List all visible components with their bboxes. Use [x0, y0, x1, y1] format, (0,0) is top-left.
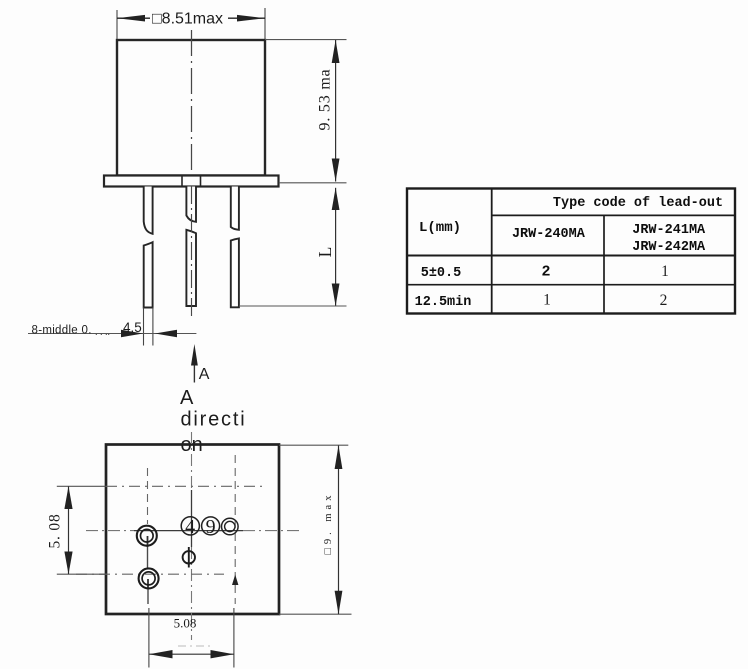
table row 12.5min [415, 292, 668, 311]
pin width extension lines [144, 308, 153, 346]
svg-text:L(mm): L(mm) [419, 220, 461, 236]
svg-text:5.08: 5.08 [174, 616, 197, 631]
svg-text:5±0.5: 5±0.5 [421, 266, 462, 281]
left pin row dashed line [147, 468, 150, 604]
bottom view right dimension [279, 445, 352, 614]
svg-text:L: L [315, 247, 335, 258]
upper horizontal dashed line [106, 485, 264, 487]
pin hole 1 (double circle) [137, 526, 157, 546]
svg-text:2: 2 [541, 264, 550, 281]
svg-text:4: 4 [185, 516, 195, 538]
right pin row dashed line [234, 455, 236, 604]
bottom view horizontal centerline [86, 530, 303, 532]
left pin upper segment [144, 187, 153, 234]
bottom view outline square [106, 445, 279, 615]
relay can body (side view) [117, 40, 265, 176]
svg-text:□9. max: □9. max [323, 492, 334, 555]
middle pin centerline [191, 186, 193, 316]
pin 4 (circled digit) [181, 516, 199, 538]
table header Type code of lead-out [553, 196, 723, 211]
middle pin upper segment [186, 187, 196, 222]
svg-text:Type code of lead-out: Type code of lead-out [553, 196, 723, 211]
small arrowhead on dashed line [232, 575, 238, 586]
phi diameter symbol [183, 547, 195, 568]
flange [104, 176, 279, 187]
svg-text:9: 9 [206, 516, 216, 538]
bottom pin spacing dimension 5.08 [149, 608, 234, 668]
svg-text:2: 2 [660, 292, 668, 309]
right pin lower segment [231, 238, 239, 307]
pin dimension 4.5 leader line [28, 330, 196, 337]
top width dimension 8.51max [117, 8, 265, 39]
left pin lower segment [144, 242, 153, 307]
lead length dimension L [315, 188, 340, 306]
svg-text:8-middle 0.: 8-middle 0. [32, 325, 92, 337]
extension line from flange bottom right [279, 182, 347, 184]
svg-text:A: A [199, 366, 210, 383]
label 8-middle 0. [32, 325, 111, 338]
bottom view vertical centerline [191, 432, 193, 640]
svg-text:JRW-240MA: JRW-240MA [512, 227, 586, 242]
svg-text:1: 1 [661, 263, 669, 280]
label 4.5 [123, 320, 142, 335]
pin 9 (circled digit) [202, 516, 220, 538]
table row 5±0.5 [421, 263, 669, 281]
right pin upper segment [231, 187, 239, 230]
pin hole 2 (double circle) [139, 568, 159, 588]
svg-text:1: 1 [543, 292, 551, 309]
svg-text:A: A [180, 387, 194, 409]
svg-text:. . ..: . . .. [95, 327, 110, 337]
pin spacing dimension 5.08 (left) [47, 486, 107, 574]
label A direction [180, 387, 246, 456]
svg-text:9. 53 ma: 9. 53 ma [317, 69, 334, 131]
table header JRW-241MA / JRW-242MA [632, 223, 706, 255]
svg-text:12.5min: 12.5min [415, 295, 472, 310]
svg-text:JRW-242MA: JRW-242MA [632, 240, 706, 255]
vertical centerline through body [191, 30, 193, 174]
table header L(mm) [419, 220, 461, 236]
svg-text:□8.51max: □8.51max [152, 11, 223, 28]
height dimension 9.53 max [317, 40, 340, 182]
svg-text:4.5: 4.5 [123, 320, 142, 335]
extension line from body top right [265, 39, 347, 41]
table header JRW-240MA [512, 227, 586, 242]
svg-text:directi: directi [181, 409, 247, 431]
table frame [407, 189, 735, 314]
svg-text:5. 08: 5. 08 [47, 514, 64, 549]
view direction arrow A [191, 344, 210, 383]
middle pin lower segment [186, 230, 196, 306]
lower horizontal dashed line [76, 573, 224, 575]
svg-text:JRW-241MA: JRW-241MA [632, 223, 706, 238]
extension line at pin ends [239, 305, 347, 307]
pin hole 3 (small double circle) [222, 518, 239, 535]
